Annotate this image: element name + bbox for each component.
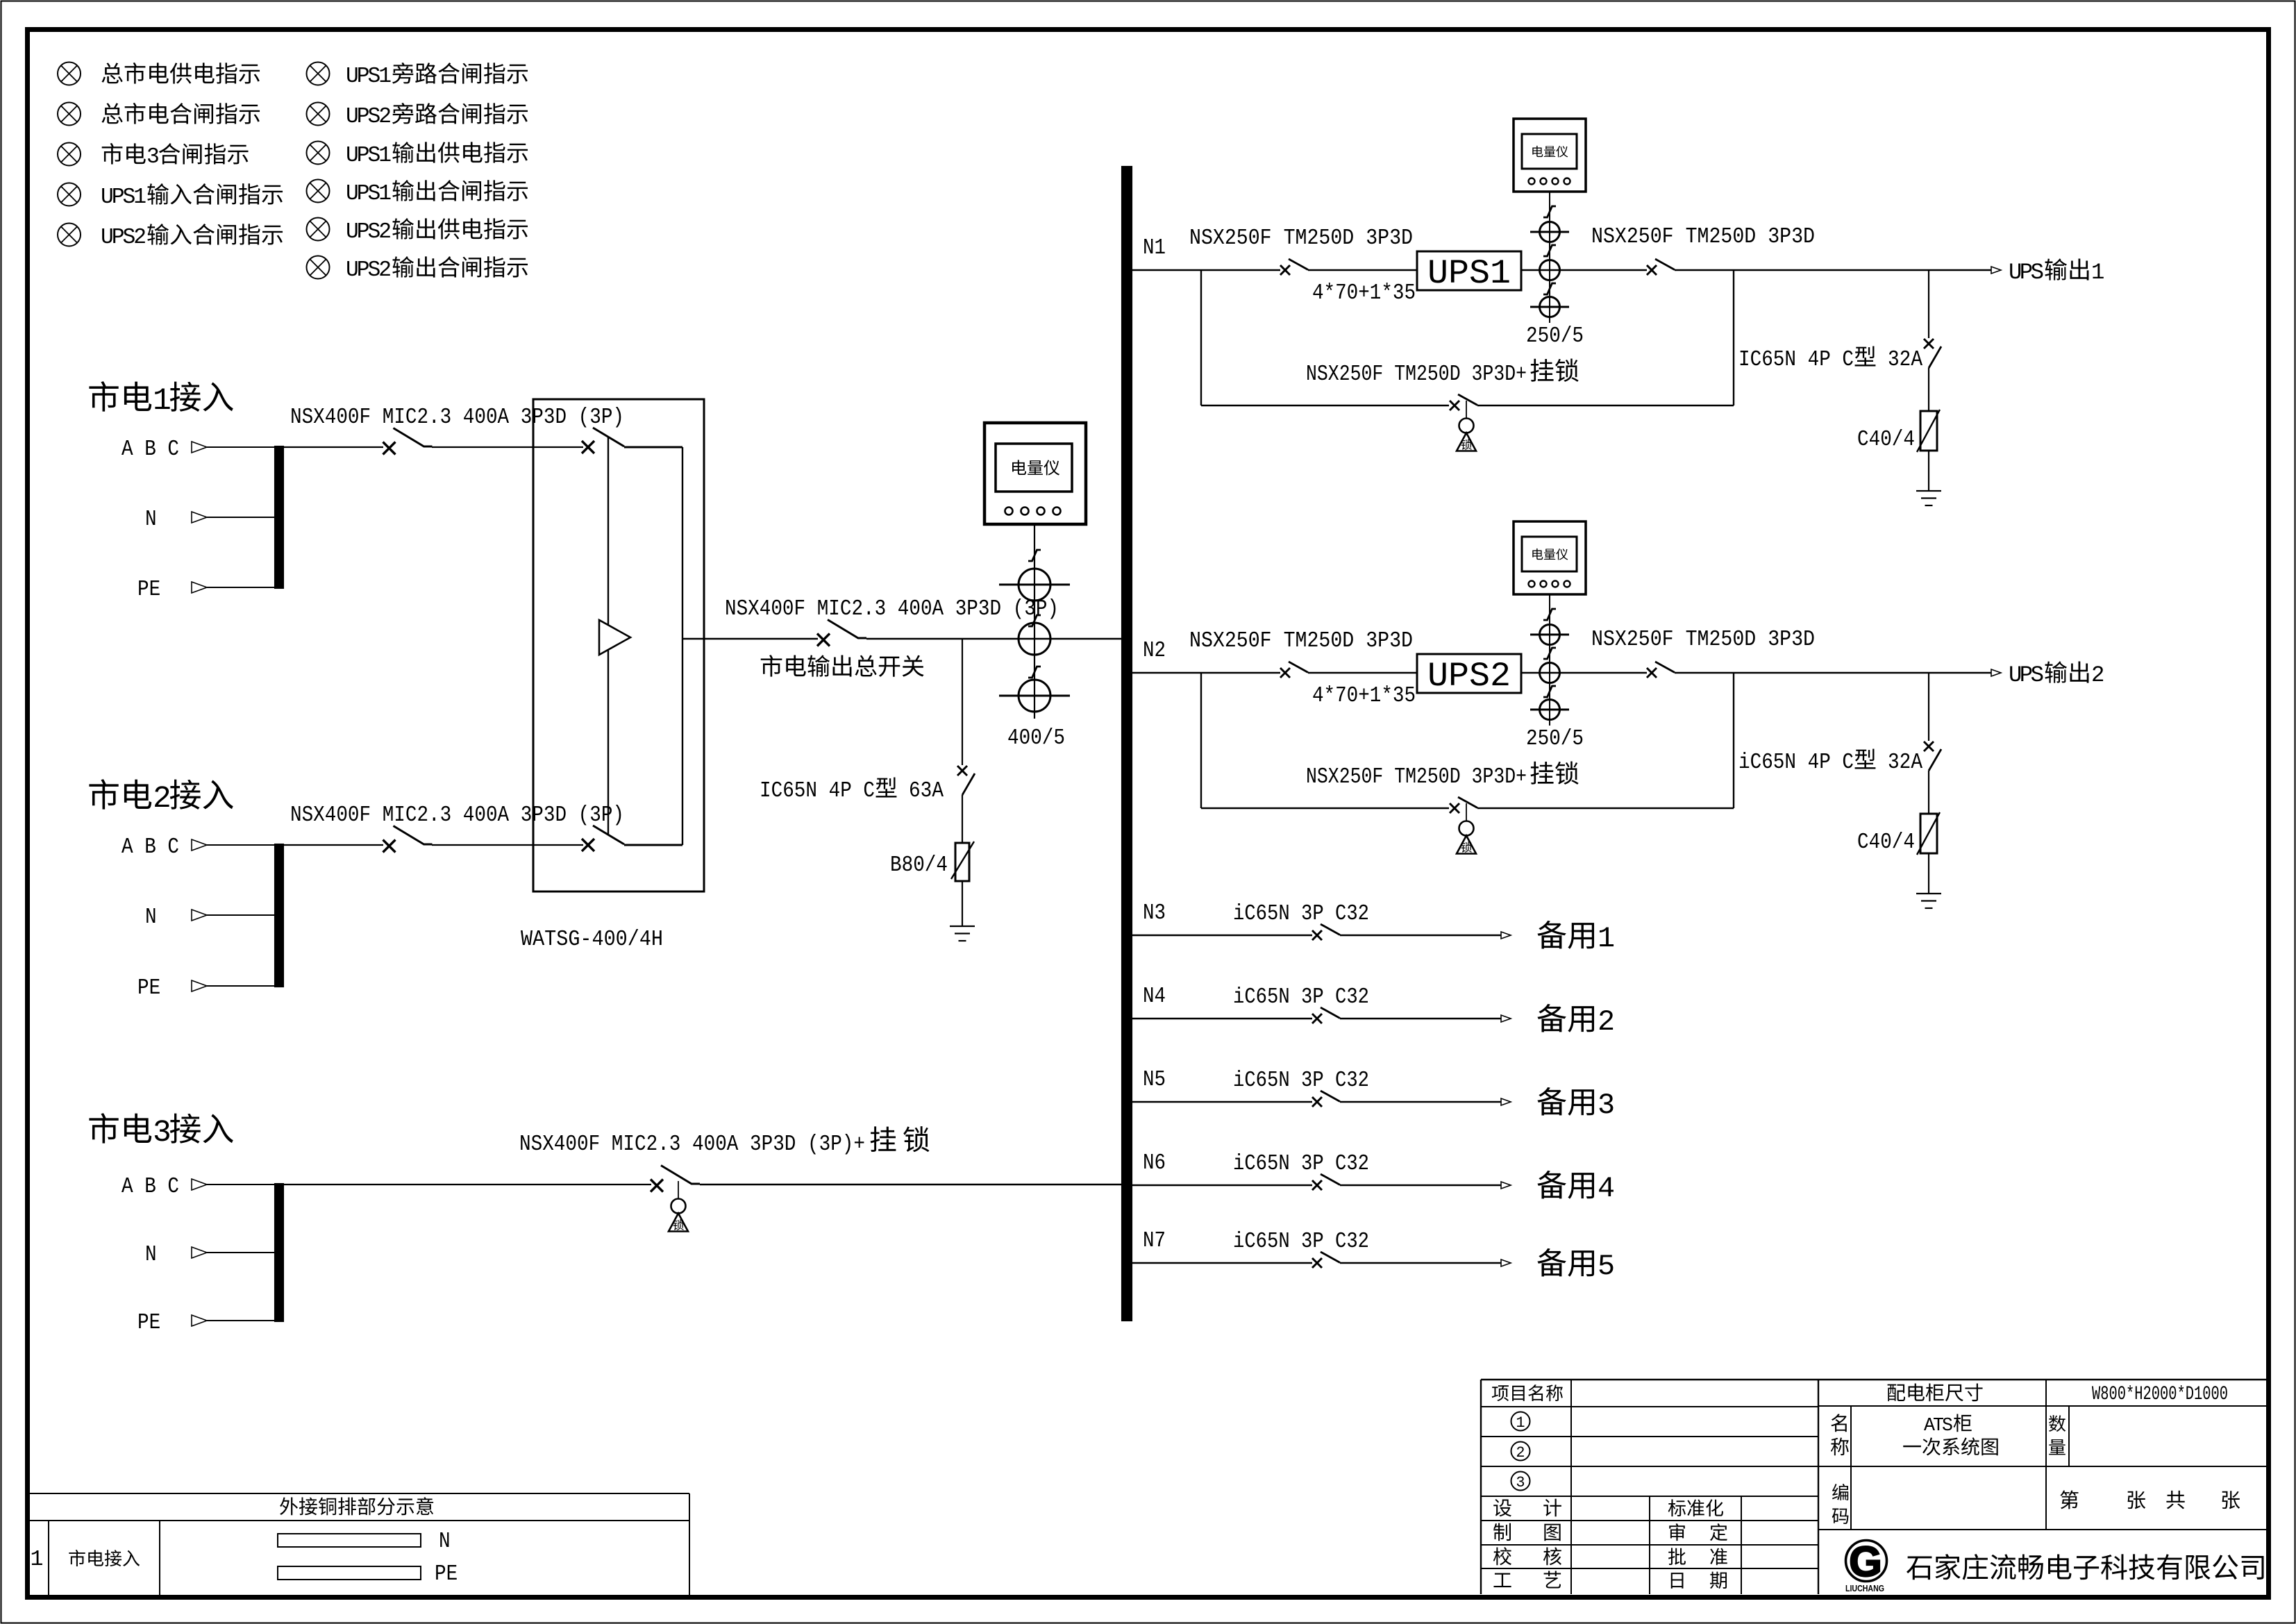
- indicator lamp HL11: [307, 256, 330, 279]
- ATS inner pole line right: [682, 447, 683, 845]
- CT ratio label 250/5: [1526, 324, 1584, 349]
- breaker QF7 iC65N: [1312, 1252, 1340, 1268]
- bypass breaker QF23: [1450, 797, 1477, 813]
- lamp label UPS1旁路合闸指示: [346, 62, 528, 89]
- wire: [1132, 672, 1280, 673]
- PE label: [137, 976, 160, 1001]
- switch label iC65N 4P C型 32A: [1738, 748, 1922, 775]
- output arrow: [1991, 267, 2001, 274]
- svg-text:iC65N 4P C: iC65N 4P C: [1738, 751, 1854, 775]
- wire: [432, 446, 583, 448]
- svg-text:iC65N 3P C32: iC65N 3P C32: [1233, 902, 1369, 926]
- ATS transfer triangle: [599, 620, 630, 655]
- SPD label B80/4: [890, 853, 948, 878]
- spare output arrow: [1501, 1182, 1511, 1189]
- breaker label NSX250F TM250D 3P3D (input): [1189, 226, 1413, 251]
- wire: [1201, 405, 1449, 406]
- CT 250/5 coil 2: [1540, 260, 1560, 281]
- title block line: [2068, 1406, 2070, 1466]
- input busbar 3: [274, 1183, 284, 1322]
- cable label 4*70+1*35: [1312, 281, 1416, 305]
- svg-text:NSX250F TM250D 3P3D: NSX250F TM250D 3P3D: [1591, 628, 1815, 652]
- svg-text:N: N: [145, 1243, 157, 1267]
- switch QS0 iC65N 63A: [957, 766, 975, 795]
- conductor slash: [1543, 609, 1556, 620]
- lamp label UPS2旁路合闸指示: [346, 103, 528, 129]
- svg-text:3: 3: [1598, 1089, 1615, 1122]
- mains input 2 title 市电2接入: [89, 779, 233, 817]
- wire: [866, 638, 1121, 639]
- svg-text:32A: 32A: [1888, 348, 1922, 372]
- indicator lamp HL6: [307, 62, 330, 85]
- copper bar table line: [689, 1493, 690, 1595]
- svg-text:UPS2: UPS2: [101, 226, 146, 250]
- cell text 市电接入: [69, 1550, 140, 1566]
- wire: [1928, 771, 1929, 814]
- power meter PM1 电量仪: [1514, 119, 1586, 192]
- node N6 label: [1143, 1151, 1166, 1175]
- node N3 label: [1143, 901, 1166, 926]
- neutral label N: [145, 508, 157, 532]
- circled number 2: [1511, 1442, 1530, 1462]
- lamp label 总市电合闸指示: [101, 103, 260, 124]
- spare output arrow: [1501, 1098, 1511, 1105]
- node N4 label: [1143, 985, 1166, 1009]
- CT 400/5 coil 2: [1019, 623, 1050, 655]
- svg-text:iC65N 3P C32: iC65N 3P C32: [1233, 1069, 1369, 1093]
- PE label: [137, 578, 160, 602]
- input busbar 1: [274, 446, 284, 589]
- title text 名称: [1831, 1414, 1849, 1455]
- wire: [1521, 269, 1647, 271]
- svg-text:UPS1: UPS1: [346, 182, 392, 206]
- PE label: [137, 1311, 160, 1335]
- spare output arrow: [1501, 932, 1511, 939]
- title text 审定: [1669, 1523, 1727, 1541]
- svg-text:1: 1: [31, 1548, 44, 1572]
- N copper bar: [278, 1534, 421, 1547]
- svg-text:N: N: [145, 508, 157, 532]
- svg-text:1: 1: [1598, 922, 1615, 955]
- wire: [1340, 1184, 1501, 1186]
- CT 400/5 coil 3: [999, 680, 1070, 712]
- lamp label UPS2输出供电指示: [346, 218, 528, 244]
- neutral label N: [145, 905, 157, 930]
- wire: [207, 1184, 274, 1185]
- conductor slash: [1543, 283, 1556, 294]
- svg-text:N1: N1: [1143, 236, 1166, 260]
- svg-text:5: 5: [1598, 1250, 1615, 1283]
- svg-text:PE: PE: [137, 976, 160, 1001]
- main busbar: [1121, 166, 1132, 1321]
- padlock: [1457, 401, 1476, 451]
- wire: [207, 985, 275, 987]
- svg-text:A B C: A B C: [121, 1175, 179, 1199]
- wire: [207, 1252, 275, 1253]
- breaker QF2 label: [290, 803, 624, 828]
- phase label A B C: [121, 1175, 179, 1199]
- ATS outer box: [533, 399, 704, 891]
- wire: [1132, 269, 1280, 271]
- title block line: [1570, 1380, 1572, 1594]
- meter lead wire: [1034, 524, 1035, 719]
- copper bar table line: [30, 1520, 689, 1521]
- conductor slash: [1543, 245, 1556, 256]
- power meter PM0 电量仪: [984, 423, 1086, 524]
- N bar label: [439, 1530, 451, 1554]
- indicator lamp HL2: [58, 103, 81, 126]
- spare label 备用4: [1537, 1171, 1615, 1205]
- svg-text:2: 2: [1516, 1444, 1525, 1462]
- node N1 label: [1143, 236, 1166, 260]
- svg-text:N: N: [145, 905, 157, 930]
- wire: [682, 638, 818, 639]
- indicator lamp HL4: [58, 183, 81, 206]
- svg-text:iC65N 3P C32: iC65N 3P C32: [1233, 985, 1369, 1010]
- svg-text:UPS2: UPS2: [346, 220, 392, 244]
- circled number 3: [1511, 1472, 1530, 1492]
- title block line: [1818, 1380, 1819, 1594]
- CT ratio label 250/5: [1526, 727, 1584, 751]
- node N2 label: [1143, 639, 1166, 663]
- conductor slash: [1028, 667, 1041, 678]
- wire: [1200, 270, 1202, 405]
- title text 数量: [2049, 1415, 2065, 1455]
- title text 设计: [1493, 1499, 1561, 1517]
- mains input 3 title 市电3接入: [89, 1113, 233, 1150]
- svg-text:IC65N 4P C: IC65N 4P C: [760, 779, 875, 803]
- svg-text:PE: PE: [137, 578, 160, 602]
- svg-text:B80/4: B80/4: [890, 853, 948, 878]
- wire: [962, 795, 963, 843]
- padlock: [1457, 803, 1476, 854]
- title block outer top line: [1481, 1379, 2268, 1380]
- svg-text:2: 2: [2091, 662, 2104, 688]
- breaker label iC65N 3P C32: [1233, 1152, 1369, 1176]
- svg-text:NSX400F MIC2.3 400A 3P3D (3P): NSX400F MIC2.3 400A 3P3D (3P): [290, 803, 624, 828]
- spare label 备用2: [1537, 1004, 1615, 1039]
- wire: [284, 844, 383, 846]
- CT 400/5 coil 1: [999, 569, 1070, 601]
- wire: [1928, 673, 1929, 741]
- wire: [1928, 270, 1929, 338]
- wire: [1200, 673, 1202, 808]
- ATS label WATSG-400/4H: [521, 928, 663, 952]
- svg-text:N6: N6: [1143, 1151, 1166, 1175]
- spare label 备用5: [1537, 1248, 1615, 1283]
- indicator lamp HL10: [307, 218, 330, 241]
- svg-text:NSX400F MIC2.3 400A 3P3D (3P)+: NSX400F MIC2.3 400A 3P3D (3P)+: [519, 1132, 865, 1157]
- output arrow: [1991, 669, 2001, 676]
- breaker QF4 iC65N: [1312, 1007, 1340, 1023]
- svg-text:NSX250F TM250D 3P3D: NSX250F TM250D 3P3D: [1189, 226, 1413, 251]
- switch label IC65N 4P C型 63A: [760, 777, 944, 803]
- title text 第张共张: [2060, 1490, 2240, 1509]
- breaker QF1b (ATS pole 1): [582, 428, 624, 453]
- indicator lamp HL3: [58, 143, 81, 166]
- spare output arrow: [1501, 1015, 1511, 1022]
- input arrow N: [192, 910, 207, 921]
- company logo text LIUCHANG: [1845, 1583, 1884, 1593]
- wire: [1675, 672, 1992, 673]
- breaker QF12 NSX250F: [1647, 259, 1675, 275]
- wire: [1340, 1101, 1501, 1103]
- meter lead wire: [1549, 192, 1550, 323]
- wire: [1477, 807, 1734, 809]
- wire: [1340, 935, 1501, 936]
- wire: [962, 881, 963, 926]
- breaker QF21 NSX250F: [1280, 662, 1308, 678]
- wire: [207, 1320, 275, 1321]
- conductor slash: [1028, 550, 1041, 561]
- svg-text:WATSG-400/4H: WATSG-400/4H: [521, 928, 663, 952]
- breaker QF6 iC65N: [1312, 1174, 1340, 1190]
- company logo G: [1849, 1538, 1882, 1585]
- title block line: [1850, 1406, 1852, 1530]
- wire: [207, 844, 274, 846]
- wire: [962, 639, 963, 765]
- svg-text:PE: PE: [435, 1562, 458, 1587]
- lamp label UPS1输入合闸指示: [101, 183, 283, 210]
- spare label 备用3: [1537, 1087, 1615, 1122]
- wire: [1733, 270, 1734, 405]
- cable label 4*70+1*35: [1312, 684, 1416, 708]
- svg-text:3: 3: [146, 145, 160, 169]
- input arrow PE: [192, 582, 207, 593]
- CT 250/5 coil 1: [1530, 625, 1569, 645]
- svg-text:UPS: UPS: [2009, 662, 2044, 688]
- svg-text:4: 4: [1598, 1172, 1615, 1205]
- title block line: [1818, 1529, 2268, 1530]
- output label UPS输出1: [2009, 258, 2104, 285]
- svg-text:NSX250F TM250D 3P3D: NSX250F TM250D 3P3D: [1591, 225, 1815, 249]
- breaker label NSX250F TM250D 3P3D (output): [1591, 225, 1815, 249]
- wire: [432, 844, 583, 846]
- input arrow ABC: [192, 1179, 207, 1190]
- bypass breaker label NSX250F TM250D 3P3D+挂锁: [1306, 762, 1579, 789]
- svg-text:250/5: 250/5: [1526, 324, 1584, 349]
- wire: [1675, 269, 1992, 271]
- switch QS1 iC65N 32A: [1924, 339, 1941, 368]
- title block line: [2045, 1380, 2047, 1530]
- switch QS2 iC65N 32A: [1924, 742, 1941, 771]
- svg-text:1: 1: [1516, 1414, 1525, 1432]
- svg-text:W800*H2000*D1000: W800*H2000*D1000: [2092, 1384, 2228, 1405]
- wire: [1928, 368, 1929, 411]
- input busbar 2: [274, 844, 284, 987]
- svg-text:N3: N3: [1143, 901, 1166, 926]
- wire: [1132, 1184, 1312, 1186]
- title block line: [1649, 1496, 1650, 1594]
- output breaker label: [725, 597, 1059, 621]
- ground: [1916, 894, 1941, 908]
- CT 250/5 coil 2: [1540, 663, 1560, 683]
- bypass breaker QF13: [1450, 394, 1477, 410]
- CT 250/5 coil 1: [1530, 222, 1569, 242]
- mains input 1 title 市电1接入: [89, 381, 233, 419]
- svg-text:ATS: ATS: [1924, 1415, 1953, 1436]
- wire: [624, 446, 682, 449]
- svg-text:A B C: A B C: [121, 835, 179, 860]
- SPD C40/4 varistor: [1917, 812, 1940, 855]
- svg-text:400/5: 400/5: [1007, 726, 1065, 751]
- wire: [1308, 672, 1417, 673]
- copper bar table line: [30, 1493, 689, 1494]
- input arrow PE: [192, 1315, 207, 1326]
- title block line: [1818, 1405, 2268, 1407]
- svg-text:1: 1: [2091, 260, 2104, 285]
- CT 250/5 coil 3: [1530, 297, 1569, 317]
- indicator lamp HL5: [58, 224, 81, 246]
- ground: [1916, 491, 1941, 505]
- conductor slash: [1543, 206, 1556, 217]
- phase label A B C: [121, 437, 179, 462]
- SPD label C40/4: [1857, 428, 1915, 452]
- svg-text:N: N: [439, 1530, 451, 1554]
- breaker QF5 iC65N: [1312, 1091, 1340, 1107]
- wire: [1477, 405, 1734, 406]
- SPD B80/4 varistor: [951, 842, 974, 881]
- indicator lamp HL8: [307, 142, 330, 165]
- title block line: [1481, 1406, 1818, 1407]
- title text 日期: [1671, 1572, 1727, 1589]
- wire: [700, 1184, 1121, 1185]
- svg-text:NSX250F TM250D 3P3D+: NSX250F TM250D 3P3D+: [1306, 765, 1527, 789]
- input arrow ABC: [192, 839, 207, 851]
- title block line: [1481, 1520, 1818, 1521]
- wire: [1340, 1262, 1501, 1264]
- PE copper bar: [278, 1566, 421, 1580]
- bypass breaker label NSX250F TM250D 3P3D+挂锁: [1306, 359, 1579, 387]
- svg-text:UPS2: UPS2: [1427, 657, 1511, 696]
- lamp label 市电3合闸指示: [102, 143, 249, 169]
- wire: [624, 844, 682, 846]
- copper bar table title 外接铜排部分示意: [280, 1497, 433, 1515]
- UPS2 box: [1417, 654, 1521, 696]
- output breaker QF0 NSX400F: [817, 620, 866, 646]
- svg-text:UPS1: UPS1: [1427, 254, 1511, 293]
- breaker label NSX250F TM250D 3P3D (input): [1189, 629, 1413, 653]
- padlock: [669, 1181, 688, 1232]
- indicator lamp HL9: [307, 180, 330, 203]
- node N7 label: [1143, 1229, 1166, 1253]
- svg-text:32A: 32A: [1888, 751, 1922, 775]
- breaker label NSX250F TM250D 3P3D (output): [1591, 628, 1815, 652]
- title text 制图: [1493, 1523, 1561, 1541]
- svg-text:N4: N4: [1143, 985, 1166, 1009]
- breaker label iC65N 3P C32: [1233, 1230, 1369, 1254]
- svg-text:3: 3: [1516, 1474, 1525, 1491]
- conductor slash: [1543, 686, 1556, 697]
- breaker label iC65N 3P C32: [1233, 1069, 1369, 1093]
- lamp label UPS1输出合闸指示: [346, 180, 528, 206]
- svg-text:G: G: [1849, 1538, 1882, 1585]
- wire: [284, 446, 383, 448]
- title block line: [1481, 1496, 1818, 1497]
- title text 配电柜尺寸: [1888, 1383, 1983, 1401]
- title text 编码: [1832, 1484, 1849, 1524]
- node N5 label: [1143, 1068, 1166, 1092]
- title text ATS柜: [1924, 1414, 1972, 1436]
- svg-text:C40/4: C40/4: [1857, 830, 1915, 855]
- breaker QF22 NSX250F: [1647, 662, 1675, 678]
- svg-text:iC65N 3P C32: iC65N 3P C32: [1233, 1230, 1369, 1254]
- svg-text:A B C: A B C: [121, 437, 179, 462]
- breaker QF2b (ATS pole 2): [582, 826, 624, 851]
- UPS1 box: [1417, 251, 1521, 293]
- input arrow N: [192, 512, 207, 523]
- conductor slash: [1028, 615, 1041, 626]
- svg-text:NSX250F TM250D 3P3D+: NSX250F TM250D 3P3D+: [1306, 362, 1527, 387]
- output label UPS输出2: [2009, 661, 2104, 688]
- svg-text:2: 2: [153, 782, 171, 817]
- copper bar table line: [48, 1521, 49, 1595]
- lamp label UPS1输出供电指示: [346, 142, 528, 168]
- svg-text:iC65N 3P C32: iC65N 3P C32: [1233, 1152, 1369, 1176]
- title block line: [1481, 1568, 1818, 1569]
- indicator lamp HL7: [307, 103, 330, 126]
- CT ratio label 400/5: [1007, 726, 1065, 751]
- wire: [1928, 451, 1929, 491]
- title block line: [1481, 1466, 1818, 1467]
- svg-text:C40/4: C40/4: [1857, 428, 1915, 452]
- svg-text:UPS2: UPS2: [346, 105, 392, 129]
- svg-text:1: 1: [153, 384, 171, 419]
- power meter PM2 电量仪: [1514, 521, 1586, 594]
- ground: [950, 926, 975, 941]
- title text 工艺: [1493, 1571, 1561, 1588]
- svg-text:2: 2: [1598, 1005, 1615, 1039]
- title block line: [1741, 1496, 1742, 1594]
- wire: [1132, 1101, 1312, 1103]
- circled number 1: [1511, 1412, 1530, 1432]
- output breaker name 市电输出总开关: [761, 655, 924, 677]
- ATS inner pole line left: [607, 437, 609, 835]
- breaker QF3 NSX400F: [651, 1166, 700, 1192]
- svg-text:N5: N5: [1143, 1068, 1166, 1092]
- svg-text:N2: N2: [1143, 639, 1166, 663]
- wire: [1132, 1262, 1312, 1264]
- svg-text:UPS1: UPS1: [101, 185, 146, 210]
- breaker QF11 NSX250F: [1280, 259, 1308, 275]
- lamp label UPS2输出合闸指示: [346, 256, 528, 283]
- wire: [1521, 672, 1647, 673]
- svg-text:UPS1: UPS1: [346, 65, 392, 89]
- svg-text:PE: PE: [137, 1311, 160, 1335]
- svg-text:UPS2: UPS2: [346, 258, 392, 283]
- wire: [1201, 807, 1449, 809]
- CT 250/5 coil 3: [1530, 700, 1569, 720]
- breaker QF1 label: [290, 405, 624, 430]
- indicator lamp HL1: [58, 62, 81, 85]
- input arrow N: [192, 1247, 207, 1258]
- breaker label iC65N 3P C32: [1233, 902, 1369, 926]
- title text 校核: [1493, 1547, 1561, 1565]
- svg-text:4*70+1*35: 4*70+1*35: [1312, 281, 1416, 305]
- meter lead wire: [1549, 594, 1550, 726]
- input arrow PE: [192, 980, 207, 991]
- neutral label N: [145, 1243, 157, 1267]
- breaker QF1 NSX400F: [383, 428, 433, 455]
- company logo ring: [1846, 1541, 1887, 1582]
- input arrow ABC: [192, 442, 207, 453]
- switch label IC65N 4P C型 32A: [1738, 346, 1922, 372]
- spare output arrow: [1501, 1259, 1511, 1266]
- SPD C40/4 varistor: [1917, 410, 1940, 452]
- svg-text:NSX400F MIC2.3 400A 3P3D (3P): NSX400F MIC2.3 400A 3P3D (3P): [290, 405, 624, 430]
- svg-text:250/5: 250/5: [1526, 727, 1584, 751]
- conductor slash: [1543, 648, 1556, 659]
